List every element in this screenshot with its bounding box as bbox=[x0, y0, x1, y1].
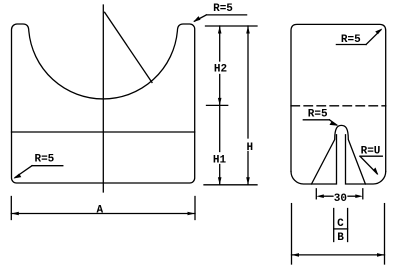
svg-text:R=5: R=5 bbox=[308, 108, 328, 120]
svg-text:R=5: R=5 bbox=[341, 34, 361, 46]
svg-text:R=5: R=5 bbox=[213, 3, 233, 15]
svg-text:H1: H1 bbox=[213, 155, 227, 167]
svg-text:R=5: R=5 bbox=[34, 153, 54, 165]
svg-text:B: B bbox=[337, 232, 344, 244]
svg-text:C: C bbox=[337, 218, 344, 230]
svg-text:R=U: R=U bbox=[361, 146, 381, 158]
svg-text:A: A bbox=[96, 205, 103, 217]
svg-text:H2: H2 bbox=[214, 64, 227, 76]
svg-text:H: H bbox=[246, 142, 253, 154]
svg-text:30: 30 bbox=[334, 193, 347, 205]
